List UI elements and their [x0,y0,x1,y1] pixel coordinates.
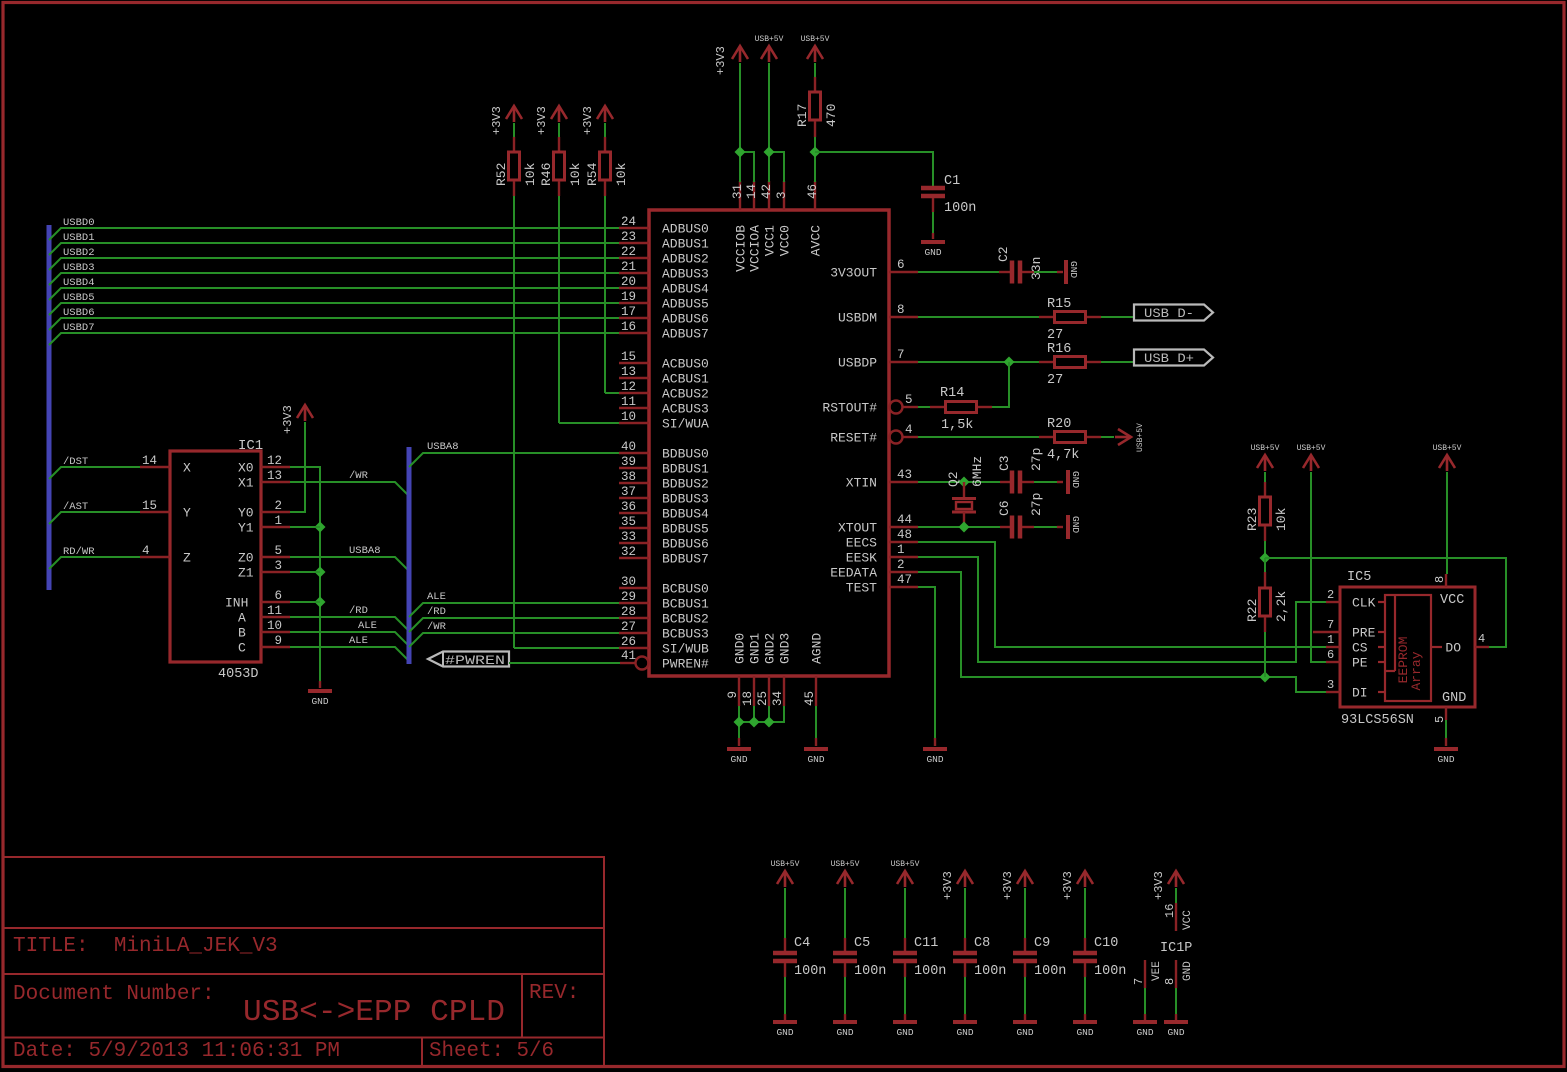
svg-text:Z: Z [183,551,191,566]
svg-text:C5: C5 [854,936,870,951]
svg-text:9: 9 [274,634,282,648]
svg-text:USB+5V: USB+5V [891,860,920,869]
svg-text:100n: 100n [914,964,946,979]
svg-text:C8: C8 [974,936,990,951]
U1 pin 46 AVCC (top) [814,181,816,210]
power USB+5V arrow for IC5 VCC [1439,455,1455,471]
svg-text:2,2k: 2,2k [1274,591,1289,622]
U1 pin 9 GND0 (bottom) [738,676,740,706]
svg-text:USBD3: USBD3 [63,262,95,274]
power USB+5V arrow (VCC) [761,46,777,62]
svg-text:USB+5V: USB+5V [1433,444,1462,453]
svg-text:R16: R16 [1047,342,1071,357]
ground below GND0-3 [738,738,740,746]
svg-text:2: 2 [897,558,905,572]
wire R17 to AVCC node [814,137,816,182]
wire R52 down [513,196,515,648]
wire PWREN# to flag [509,662,620,664]
svg-text:48: 48 [897,528,912,542]
svg-text:R22: R22 [1245,599,1260,622]
svg-text:12: 12 [621,380,636,394]
wire C9 to ground [1024,977,1026,1014]
svg-text:GND: GND [807,754,824,765]
svg-text:3V3OUT: 3V3OUT [830,266,877,281]
svg-text:33: 33 [621,530,636,544]
svg-text:GND: GND [926,754,943,765]
svg-text:IC1: IC1 [238,438,263,454]
IC1 pin 2 Y0 [261,511,290,513]
capacitor C10 [1084,938,1086,951]
svg-text:10: 10 [267,619,282,633]
svg-text:R14: R14 [940,386,964,401]
title block outline [3,857,604,1066]
IC1 pin 13 X1 [261,481,290,483]
power USB+5V arrow above C11 [897,871,913,887]
junction +3V3 [735,147,746,158]
U1 pin 44 XTOUT [889,526,918,528]
svg-text:8: 8 [1163,978,1177,985]
U1 pin 11 ACBUS3 [619,407,649,409]
wire USBD1 [49,243,619,255]
svg-text:Date: 5/9/2013 11:06:31 PM: Date: 5/9/2013 11:06:31 PM [13,1040,340,1063]
ground below VEE [1144,1014,1146,1020]
svg-text:IC5: IC5 [1347,570,1371,585]
svg-text:GND: GND [730,754,747,765]
IC1P pin 8 GND [1175,960,1177,988]
svg-text:USB D+: USB D+ [1144,351,1194,366]
svg-text:45: 45 [803,691,817,706]
U1 pin 25 GND2 (bottom) [768,676,770,706]
svg-text:USBD4: USBD4 [63,277,95,289]
svg-text:6MHz: 6MHz [970,456,985,487]
wire power to C11 [904,888,906,938]
IC1 pin 1 Y1 [261,526,290,528]
IC1 pin 5 Z0 [261,556,290,558]
power +3V3 arrow for IC1P VCC [1168,871,1184,887]
svg-text:EECS: EECS [846,536,877,551]
U1 pin 48 EECS [889,541,918,543]
U1 pin 10 SI/WUA [619,422,649,424]
wire C10 to ground [1084,977,1086,1014]
svg-text:35: 35 [621,515,636,529]
capacitor C11 [904,938,906,951]
power USB+5V arrow for IC5 PE [1303,455,1319,471]
U1 pin 35 BDBUS5 [619,527,649,529]
svg-text:DI: DI [1352,686,1368,701]
junction X0 rail / Z1 [315,567,326,578]
wire R22 to EEDATA net [1264,632,1266,677]
wire IC1 X0 to ground rail [290,467,320,681]
wire R23 to node [1264,541,1266,558]
svg-text:2: 2 [1327,588,1334,602]
IC5 pin 7 PRE [1313,631,1340,633]
svg-text:XTIN: XTIN [846,476,877,491]
U1 pin 28 BCBUS2 [619,617,649,619]
svg-text:4053D: 4053D [218,667,259,682]
svg-text:GND: GND [1167,1027,1184,1038]
svg-text:4: 4 [142,544,150,558]
wire USBD3 [49,273,619,285]
wire IC1P GND to ground [1175,988,1177,1014]
svg-text:16: 16 [621,320,636,334]
ground below C8 [964,1014,966,1020]
junction XTIN/Q2 [959,477,970,488]
U1 pin 23 ADBUS1 [619,242,649,244]
svg-text:14: 14 [142,454,157,468]
bus USBD (left vertical blue bus) [47,225,52,590]
svg-text:GND: GND [836,1027,853,1038]
U1 pin 42 VCC1 (top) [768,181,770,210]
svg-text:BCBUS1: BCBUS1 [662,597,709,612]
U1 pin 2 EEDATA [889,571,918,573]
svg-text:ADBUS5: ADBUS5 [662,297,709,312]
svg-text:AVCC: AVCC [809,225,824,256]
svg-text:Array: Array [1409,651,1424,690]
wire AVCC node to C1 [815,152,933,186]
svg-text:31: 31 [731,184,745,199]
svg-text:15: 15 [142,499,157,513]
IC5 pin 4 DO [1475,646,1489,648]
svg-text:VCCIOA: VCCIOA [748,225,763,272]
wire USBD2 [49,258,619,270]
svg-text:100n: 100n [944,201,976,216]
IC1 pin 15 Y [140,511,170,513]
svg-text:C4: C4 [794,936,810,951]
IC IC1 4053D body [170,451,261,662]
svg-text:C: C [238,641,246,656]
svg-text:+3V3: +3V3 [1001,871,1015,900]
svg-text:BDBUS5: BDBUS5 [662,522,709,537]
svg-text:14: 14 [745,184,759,199]
svg-text:Q2: Q2 [946,471,961,487]
svg-text:27p: 27p [1029,493,1044,516]
U1 pin 1 EESK [889,556,918,558]
U1 pin 27 BCBUS3 [619,632,649,634]
svg-text:X: X [183,461,191,476]
ground below C11 [904,1014,906,1020]
U1 pin 14 VCCIOA (top) [753,181,755,210]
wire C5 to ground [844,977,846,1014]
svg-text:Y1: Y1 [238,521,254,536]
U1 pin 41 PWREN# (active low) [620,662,635,664]
svg-text:BCBUS2: BCBUS2 [662,612,709,627]
svg-text:USBA8: USBA8 [349,545,381,557]
capacitor C5 [844,938,846,951]
wire Z0 USBA8 to bus [290,557,409,571]
svg-text:40: 40 [621,440,636,454]
wire RSTOUT# to R14 [918,406,930,408]
svg-text:ADBUS0: ADBUS0 [662,222,709,237]
wire USB+5V to PE [1311,472,1326,662]
U1 pin 40 BDBUS0 [619,452,649,454]
svg-text:ALE: ALE [358,620,377,632]
svg-text:EESK: EESK [846,551,877,566]
resistor R20 [1039,436,1053,438]
svg-text:GND: GND [1016,1027,1033,1038]
svg-text:GND: GND [1076,1027,1093,1038]
U1 pin 31 VCCIOB (top) [739,181,741,210]
power USB+5V arrow above C5 [837,871,853,887]
svg-text:R46: R46 [539,163,554,186]
wire USBD7 [49,333,619,345]
IC1 pin 9 C [261,646,290,648]
power +3V3 arrow above C9 [1017,871,1033,887]
U1 pin 39 BDBUS1 [619,467,649,469]
wire /AST [49,512,140,524]
wire C ALE to bus [290,647,409,661]
svg-text:PWREN#: PWREN# [662,657,709,672]
wire /DST [49,467,140,479]
ground below C10 [1084,1014,1086,1020]
svg-text:100n: 100n [1094,964,1126,979]
wire node to R22 [1264,558,1266,572]
svg-text:R17: R17 [795,104,810,127]
wire USB+5V to IC5 VCC [1446,472,1448,574]
svg-text:36: 36 [621,500,636,514]
svg-text:REV:: REV: [529,982,579,1005]
svg-text:/WR: /WR [427,621,447,633]
wire +3V3 to R46 [558,123,560,137]
wire C6 to ground [1034,526,1057,528]
wire USBD5 [49,303,619,315]
U1 pin 19 ADBUS5 [619,302,649,304]
svg-text:VCC0: VCC0 [778,225,793,256]
svg-text:12: 12 [267,454,282,468]
wire USBD4 [49,288,619,300]
svg-text:100n: 100n [794,964,826,979]
svg-text:+3V3: +3V3 [941,871,955,900]
svg-text:32: 32 [621,545,636,559]
svg-text:10: 10 [621,410,636,424]
ground below C5 [844,1014,846,1020]
rotated ground after C2 [1057,271,1063,273]
svg-text:C9: C9 [1034,936,1050,951]
svg-text:ACBUS1: ACBUS1 [662,372,709,387]
IC1 pin 12 X0 [261,466,290,468]
svg-text:30: 30 [621,575,636,589]
svg-text:25: 25 [756,691,770,706]
svg-text:5: 5 [1433,716,1447,723]
svg-text:TEST: TEST [846,581,877,596]
power +3V3 arrow above R46 [551,106,567,122]
svg-text:3: 3 [775,191,789,199]
IC1 pin 4 Z [140,556,170,558]
IC1 pin 14 X [140,466,170,468]
svg-text:6: 6 [274,589,282,603]
svg-text:27: 27 [1047,328,1063,343]
svg-text:47: 47 [897,573,912,587]
svg-text:GND: GND [311,696,328,707]
svg-text:43: 43 [897,468,912,482]
U1 pin 5 RSTOUT# [890,401,903,414]
svg-text:/DST: /DST [63,456,88,468]
svg-text:27: 27 [1047,373,1063,388]
wire R54 down [604,196,606,393]
capacitor C1 [921,186,945,191]
wire R46 down [558,196,560,423]
svg-text:C2: C2 [996,246,1011,262]
svg-text:GND: GND [1442,691,1466,706]
svg-text:R23: R23 [1245,508,1260,531]
svg-text:X0: X0 [238,461,254,476]
svg-text:11: 11 [621,395,636,409]
capacitor C4 [784,938,786,951]
svg-text:+3V3: +3V3 [1061,871,1075,900]
capacitor C8 [964,938,966,951]
svg-text:ACBUS0: ACBUS0 [662,357,709,372]
wire A /RD to bus [290,617,409,631]
svg-text:USB+5V: USB+5V [1297,444,1326,453]
svg-text:470: 470 [824,104,839,127]
wire /RD from bus to main IC [409,618,619,632]
svg-text:46: 46 [806,184,820,199]
svg-text:USBD6: USBD6 [63,307,95,319]
svg-text:PE: PE [1352,656,1368,671]
svg-text:GND: GND [1136,1027,1153,1038]
capacitor C9 [1024,938,1026,951]
wire USBA8 from bus to main IC [409,453,619,467]
power +3V3 arrow above C10 [1077,871,1093,887]
svg-text:R52: R52 [494,163,509,186]
svg-text:USBDP: USBDP [838,356,877,371]
U1 pin 21 ADBUS3 [619,272,649,274]
IC1P pin 16 VCC [1175,903,1177,931]
svg-text:+3V3: +3V3 [535,106,549,135]
svg-text:GND2: GND2 [763,633,778,664]
svg-text:GND0: GND0 [733,633,748,664]
svg-text:ADBUS7: ADBUS7 [662,327,709,342]
svg-text:+3V3: +3V3 [714,46,728,75]
svg-text:GND: GND [896,1027,913,1038]
junction R23/R22/DO node [1260,553,1271,564]
svg-text:ADBUS3: ADBUS3 [662,267,709,282]
svg-text:USBD7: USBD7 [63,322,95,334]
svg-text:93LCS56SN: 93LCS56SN [1341,713,1414,728]
U1 pin 3 VCC0 (top) [783,181,785,210]
U1 pin 12 ACBUS2 [619,392,649,394]
svg-text:GND: GND [1437,754,1454,765]
U1 pin 8 USBDM [889,316,918,318]
wire EECS to IC5 CS [918,542,1326,647]
wire USB+5V to pins 42/3 [768,63,770,182]
U1 pin 47 TEST [889,586,918,588]
ground below IC1P GND [1175,1014,1177,1020]
svg-text:29: 29 [621,590,636,604]
svg-text:EEDATA: EEDATA [830,566,877,581]
rotated ground after C3 [1057,481,1063,483]
U1 pin 33 BDBUS6 [619,542,649,544]
IC5 pin 2 CLK [1326,601,1340,603]
svg-text:RD/WR: RD/WR [63,546,95,558]
svg-text:C3: C3 [997,455,1012,471]
svg-text:ACBUS3: ACBUS3 [662,402,709,417]
wire R16 to USB D+ flag [1101,361,1134,363]
U1 pin 38 BDBUS2 [619,482,649,484]
IC IC5 93LCS56SN body [1340,587,1475,707]
svg-text:C10: C10 [1094,936,1118,951]
svg-text:USBD5: USBD5 [63,292,95,304]
svg-text:Z1: Z1 [238,566,254,581]
wire RD/WR [49,557,140,569]
svg-text:USB+5V: USB+5V [831,860,860,869]
svg-text:R15: R15 [1047,297,1071,312]
svg-text:+3V3: +3V3 [1152,871,1166,900]
IC1 pin 6 INH [261,601,290,603]
svg-text:R20: R20 [1047,417,1071,432]
wire USBD6 [49,318,619,330]
svg-text:BDBUS6: BDBUS6 [662,537,709,552]
svg-text:23: 23 [621,230,636,244]
svg-text:GND: GND [776,1027,793,1038]
crystal Q2 6MHz [963,482,965,497]
svg-text:7: 7 [1327,618,1334,632]
wire B ALE to bus [290,632,409,646]
IC5 pin 1 CS [1326,646,1340,648]
svg-text:+3V3: +3V3 [281,405,295,434]
svg-text:RSTOUT#: RSTOUT# [822,401,877,416]
wire +3V3 to IC1P pin16 [1175,888,1177,903]
wire XTIN to C3 [918,481,1000,483]
resistor R16 [1039,361,1053,363]
svg-text:IC1P: IC1P [1160,941,1192,956]
svg-text:USB+5V: USB+5V [771,860,800,869]
svg-text:BCBUS3: BCBUS3 [662,627,709,642]
wire C11 to ground [904,977,906,1014]
wire R14 up to USBDP net [992,362,1009,407]
U1 pin 36 BDBUS4 [619,512,649,514]
ground below TEST [934,738,936,746]
power +3V3 arrow for IC1 Y0 [297,405,313,421]
svg-text:R54: R54 [585,162,600,186]
svg-text:CS: CS [1352,641,1368,656]
wire USB+5V to R17 [814,63,816,77]
IC5 inner EEPROM array symbol [1385,595,1431,701]
resistor R15 [1039,316,1053,318]
svg-text:44: 44 [897,513,912,527]
svg-text:34: 34 [771,691,785,706]
svg-text:8: 8 [897,303,905,317]
net flag USB D+ [1134,350,1213,366]
svg-text:100n: 100n [1034,964,1066,979]
svg-text:VCC: VCC [1182,910,1194,930]
U1 pin 22 ADBUS2 [619,257,649,259]
U1 pin 45 AGND (bottom) [815,676,817,706]
svg-text:BCBUS0: BCBUS0 [662,582,709,597]
net flag #PWREN [428,652,509,667]
svg-text:+3V3: +3V3 [581,106,595,135]
svg-text:24: 24 [621,215,636,229]
wire VEE to ground [1144,988,1146,1014]
U1 pin 7 USBDP [889,361,918,363]
svg-text:/WR: /WR [349,470,369,482]
wire USBDM to R15 [918,316,1039,318]
svg-text:19: 19 [621,290,636,304]
power +3V3 arrow above R52 [506,106,522,122]
svg-text:1: 1 [1327,633,1334,647]
svg-text:ALE: ALE [349,635,368,647]
svg-text:5: 5 [274,544,282,558]
svg-text:22: 22 [621,245,636,259]
capacitor C2 [999,271,1010,273]
svg-text:USB D-: USB D- [1144,306,1194,321]
svg-text:18: 18 [741,691,755,706]
power +3V3 arrow (VCCIO) [732,46,748,62]
ground below C9 [1024,1014,1026,1020]
svg-text:PRE: PRE [1352,626,1376,641]
resistor R23 [1264,482,1266,496]
svg-text:GND: GND [1068,261,1079,278]
wire C4 to ground [784,977,786,1014]
